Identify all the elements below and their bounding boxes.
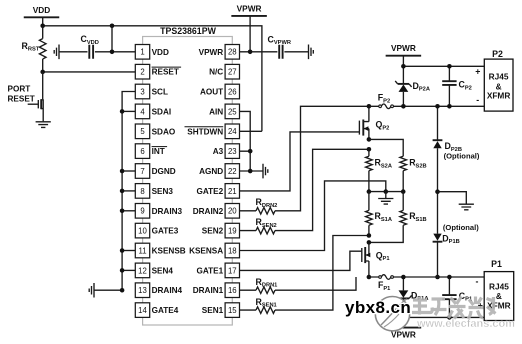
resistor RS2B: [400, 156, 427, 191]
svg-text:ybx8.cn: ybx8.cn: [345, 298, 411, 317]
node junction A3: [248, 149, 253, 154]
svg-text:PORT: PORT: [8, 85, 31, 94]
wire DRAIN1 to port1 rail: [275, 277, 356, 290]
wire RS2B top link: [369, 139, 403, 156]
node junction DP1A bottom: [401, 315, 406, 320]
pin 3 SCL: [135, 84, 168, 99]
svg-text:27: 27: [228, 68, 237, 77]
svg-text:(Optional): (Optional): [444, 152, 480, 161]
svg-text:P1: P1: [491, 259, 502, 269]
pin 14 GATE4: [135, 303, 178, 318]
pin 28 VPWR: [199, 45, 240, 60]
pin 18 KSENSA: [189, 243, 239, 258]
wire AIN-A3-AGND ground bus: [240, 111, 264, 171]
svg-text:VDD: VDD: [33, 5, 51, 15]
svg-text:DRAIN4: DRAIN4: [152, 286, 183, 295]
pin 11 KSENSB: [135, 243, 186, 258]
svg-text:24: 24: [228, 127, 237, 136]
svg-text:(Optional): (Optional): [443, 223, 479, 232]
pin 24 SHTDWN: [185, 124, 240, 139]
svg-text:17: 17: [228, 266, 237, 275]
svg-text:XFMR: XFMR: [487, 90, 511, 100]
node junction QP1 source / RS1B: [367, 240, 372, 245]
fuse FP2: [369, 93, 404, 109]
node junction optional ground: [435, 189, 440, 194]
pin 15 SEN1: [202, 303, 240, 318]
svg-text:8: 8: [140, 187, 144, 196]
svg-text:25: 25: [228, 107, 237, 116]
resistor RDRN2: [240, 197, 278, 214]
svg-text:5: 5: [140, 127, 145, 136]
node junction bus pin12: [120, 268, 125, 273]
pin 1 VDD: [135, 45, 169, 60]
svg-text:7: 7: [140, 167, 144, 176]
svg-text:1: 1: [140, 48, 144, 57]
node junction QP2 drain: [367, 104, 372, 109]
node junction CP2 top: [447, 64, 452, 69]
wire optional-diode vertical: [437, 106, 439, 277]
pin 16 DRAIN1: [193, 283, 240, 298]
svg-text:-: -: [476, 95, 479, 105]
pin 25 AIN: [209, 104, 239, 119]
node junction DP2A bottom: [401, 104, 406, 109]
ground (sideways) at CVDD: [54, 45, 59, 60]
node junction SEN2 node: [367, 147, 372, 152]
resistor RS2A: [366, 149, 392, 191]
svg-text:DRAIN1: DRAIN1: [193, 286, 224, 295]
svg-text:AGND: AGND: [199, 167, 223, 176]
pin 21 GATE2: [196, 184, 239, 199]
svg-text:28: 28: [228, 48, 237, 57]
node junction AGND: [248, 169, 253, 174]
node VPWR (top rail): [231, 3, 267, 51]
svg-text:21: 21: [228, 187, 237, 196]
node VDD (power rail): [24, 5, 60, 26]
svg-text:10: 10: [138, 227, 147, 236]
svg-text:KSENSB: KSENSB: [152, 247, 186, 256]
svg-text:13: 13: [138, 286, 147, 295]
diode DP1A (TVS): [395, 277, 428, 317]
svg-text:16: 16: [228, 286, 237, 295]
svg-text:GATE1: GATE1: [196, 266, 223, 275]
svg-text:SEN4: SEN4: [152, 266, 174, 275]
wire port2 plus rail: [403, 65, 484, 67]
svg-text:VDD: VDD: [152, 48, 169, 57]
node junction VDD/RRST: [40, 24, 45, 29]
node junction bus pin4: [120, 109, 125, 114]
svg-text:VPWR: VPWR: [391, 43, 416, 53]
wire sense ground rail: [369, 191, 403, 193]
wire KSENSA to sense ground: [240, 181, 386, 251]
pin 22 AGND: [199, 164, 239, 179]
node junction CP1 top: [447, 275, 452, 280]
resistor RDRN1: [240, 277, 278, 294]
svg-text:GATE4: GATE4: [152, 306, 179, 315]
svg-text:GATE3: GATE3: [152, 227, 179, 236]
transistor Q2 QP2: [359, 106, 389, 139]
svg-text:-: -: [476, 277, 479, 287]
node junction RRST/RESET: [40, 70, 45, 75]
node junction bus pin9: [120, 208, 125, 213]
svg-text:AIN: AIN: [209, 107, 223, 116]
svg-text:22: 22: [228, 167, 237, 176]
pin 19 SEN2: [202, 223, 240, 238]
pin 12 SEN4: [135, 263, 173, 278]
ground at port-reset FET: [36, 122, 51, 128]
diode DP2A (TVS): [395, 66, 430, 106]
svg-text:P2: P2: [492, 49, 503, 59]
ground (sideways) at DRAIN4: [89, 283, 94, 298]
node junction VPWR/pin28: [248, 50, 253, 55]
svg-text:SDAO: SDAO: [152, 127, 176, 136]
node junction QP1 drain: [367, 275, 372, 280]
svg-text:SHTDWN: SHTDWN: [187, 127, 223, 136]
transistor port-reset FET: [28, 72, 44, 122]
capacitor CVDD: [59, 34, 135, 59]
wire CVDD branch vertical: [111, 26, 113, 52]
node junction DP2A top: [401, 64, 406, 69]
wire VDD horizontal to SHTDWN vertical: [43, 26, 262, 132]
ground (sideways) at CVPWR: [309, 45, 314, 60]
pin 27 N/C: [209, 64, 239, 79]
node junction QP2 source / RS2B: [367, 137, 372, 142]
svg-text:KSENSA: KSENSA: [189, 247, 223, 256]
resistor RSEN1: [240, 297, 277, 314]
pin 20 DRAIN2: [193, 204, 240, 219]
node junction RS2A/RS1A: [367, 189, 372, 194]
svg-text:TPS23861PW: TPS23861PW: [160, 26, 216, 36]
svg-text:RJ45: RJ45: [489, 71, 509, 81]
node VPWR (bottom rail): [386, 317, 422, 339]
ground at optional diodes: [438, 192, 467, 204]
svg-text:3: 3: [140, 87, 144, 96]
svg-text:SEN3: SEN3: [152, 187, 174, 196]
wire SEN2 to QP2 source: [275, 149, 369, 230]
svg-text:INT: INT: [152, 147, 165, 156]
svg-text:AOUT: AOUT: [200, 88, 223, 97]
wire DRAIN2 to QP2 drain: [275, 106, 369, 211]
resistor RS1B: [369, 192, 427, 243]
svg-text:14: 14: [138, 306, 147, 315]
svg-text:N/C: N/C: [209, 68, 223, 77]
pin 10 GATE3: [135, 223, 178, 238]
svg-text:RESET: RESET: [152, 68, 179, 77]
fuse FP1: [369, 275, 404, 292]
ground (sideways) at AGND: [263, 164, 268, 179]
node junction CVDD/VDD pin1: [110, 50, 115, 55]
wire GATE1 to QP1 gate: [240, 251, 362, 270]
pin 7 DGND: [135, 164, 175, 179]
capacitor CVPWR: [268, 35, 291, 59]
node junction VDD/CVDD branch: [110, 24, 115, 29]
svg-text:19: 19: [228, 227, 237, 236]
pin 13 DRAIN4: [135, 283, 182, 298]
svg-text:VPWR: VPWR: [237, 3, 262, 13]
svg-text:23: 23: [228, 147, 237, 156]
svg-text:20: 20: [228, 207, 237, 216]
svg-text:DRAIN3: DRAIN3: [152, 207, 183, 216]
pin 17 GATE1: [196, 263, 239, 278]
svg-text:www.elecfans.com: www.elecfans.com: [416, 318, 515, 330]
resistor RRST: [22, 26, 47, 72]
svg-text:18: 18: [228, 246, 237, 255]
svg-text:6: 6: [140, 147, 144, 156]
wire pin28 to CVPWR: [240, 51, 309, 53]
svg-text:DGND: DGND: [152, 167, 176, 176]
svg-text:&: &: [496, 291, 502, 301]
svg-text:15: 15: [228, 306, 237, 315]
svg-text:RESET: RESET: [8, 95, 35, 104]
svg-text:2: 2: [140, 68, 144, 77]
wire left ground bus: [94, 92, 135, 291]
node junction bus pin7: [120, 169, 125, 174]
node junction DP1A top: [401, 275, 406, 280]
svg-text:SEN1: SEN1: [202, 306, 224, 315]
watermark stamp circle: [375, 297, 409, 331]
node junction bus pin8: [120, 189, 125, 194]
capacitor CP1: [442, 277, 472, 317]
node junction sense ground tap: [384, 189, 389, 194]
svg-text:VPWR: VPWR: [199, 48, 224, 57]
pin 23 A3: [213, 144, 240, 159]
node junction bus pin11: [120, 248, 125, 253]
svg-text:A3: A3: [213, 147, 224, 156]
pin 6 INT: [135, 144, 167, 159]
svg-text:GATE2: GATE2: [196, 187, 223, 196]
capacitor CP2: [442, 66, 472, 106]
transistor Q1 QP1: [362, 242, 390, 277]
ground at sense resistors: [385, 192, 387, 199]
wire RESET line: [43, 71, 136, 73]
connector P2 RJ45: [475, 49, 513, 111]
resistor RS1A: [366, 192, 392, 236]
wire port2 rail: [403, 105, 484, 107]
resistor RSEN2: [240, 217, 277, 234]
diode DP2B (optional): [433, 140, 480, 161]
pin 2 RESET: [135, 64, 181, 79]
svg-text:RJ45: RJ45: [489, 281, 509, 291]
wire port1 minus rail: [403, 316, 484, 318]
node junction CP1 bottom: [447, 315, 452, 320]
wire SEN1 to QP1 source: [275, 236, 369, 311]
pin 8 SEN3: [135, 184, 173, 199]
svg-text:4: 4: [140, 107, 145, 116]
pin 9 DRAIN3: [135, 204, 182, 219]
node junction RS2B/RS1B: [401, 189, 406, 194]
pin 26 AOUT: [200, 84, 240, 99]
svg-text:SEN2: SEN2: [202, 227, 224, 236]
node junction SEN1 node: [367, 233, 372, 238]
pin 4 SDAI: [135, 104, 171, 119]
watermark gray glyphs: [412, 297, 496, 319]
op-amp U1 TPS23861PW outline: [143, 37, 233, 326]
pin 5 SDAO: [135, 124, 176, 139]
svg-text:SCL: SCL: [152, 88, 168, 97]
svg-text:+: +: [475, 67, 480, 77]
svg-text:12: 12: [138, 266, 147, 275]
node junction DP1B bottom: [435, 275, 440, 280]
connector P1 RJ45: [476, 259, 514, 321]
node VPWR (port2 rail): [386, 43, 422, 66]
node junction bus pin13: [120, 288, 125, 293]
svg-text:26: 26: [228, 87, 237, 96]
svg-text:11: 11: [138, 246, 146, 255]
diode DP1B (optional): [433, 223, 480, 245]
svg-text:9: 9: [140, 207, 144, 216]
svg-text:DRAIN2: DRAIN2: [193, 207, 224, 216]
wire SHTDWN to VDD: [240, 130, 262, 132]
node junction DP2B top: [435, 104, 440, 109]
node junction CP2 bottom: [447, 104, 452, 109]
wire GATE2 to QP2 gate: [240, 132, 360, 191]
svg-text:SDAI: SDAI: [152, 107, 172, 116]
wire port1 rail: [403, 276, 484, 278]
